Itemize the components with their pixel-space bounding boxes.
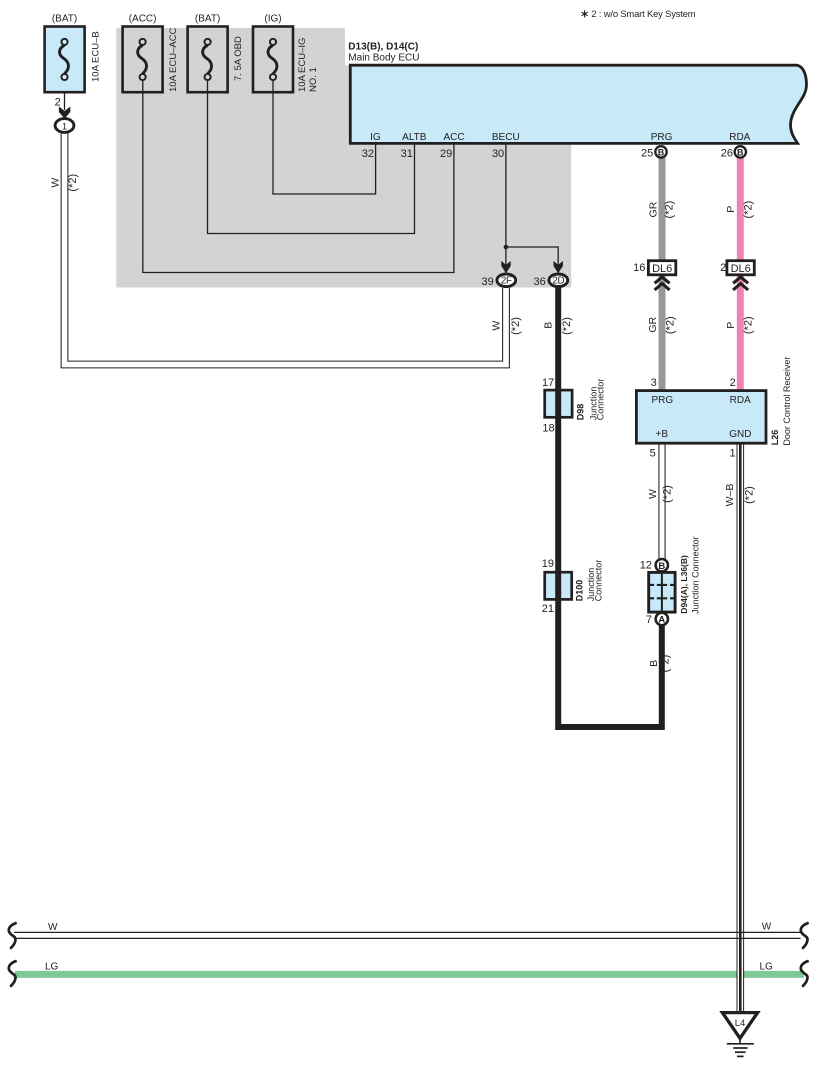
svg-text:(*2): (*2) — [743, 316, 755, 334]
svg-text:Junction Connector: Junction Connector — [691, 536, 701, 614]
node: BECU branch junction dot — [504, 245, 509, 250]
svg-text:W: W — [490, 321, 502, 331]
svg-text:1: 1 — [62, 121, 67, 132]
svg-text:PRG: PRG — [651, 132, 673, 143]
shield arrows below DL6 2 — [733, 277, 748, 283]
svg-text:19: 19 — [542, 558, 554, 570]
break symbol W right — [801, 923, 808, 948]
svg-text:7. 5A OBD: 7. 5A OBD — [233, 36, 244, 81]
break symbol LG right — [801, 961, 808, 986]
svg-text:B: B — [737, 147, 744, 157]
svg-text:31: 31 — [401, 148, 413, 160]
svg-text:2 : w/o Smart Key System: 2 : w/o Smart Key System — [591, 8, 695, 19]
connector oval 2D pin 36 — [549, 274, 568, 287]
break symbol W left — [9, 923, 16, 948]
svg-text:(*2): (*2) — [743, 201, 755, 219]
svg-text:LG: LG — [760, 961, 774, 972]
svg-text:L4: L4 — [735, 1018, 746, 1029]
svg-text:2: 2 — [720, 262, 726, 274]
note: *2 w/o Smart Key System — [582, 8, 696, 19]
svg-text:RDA: RDA — [729, 132, 750, 143]
shield arrows below DL6 16 — [655, 277, 670, 283]
svg-text:10A ECU–B: 10A ECU–B — [90, 31, 101, 82]
svg-text:GND: GND — [729, 429, 751, 440]
svg-text:32: 32 — [362, 148, 374, 160]
svg-text:W: W — [647, 489, 659, 499]
svg-text:D94(A), L36(B): D94(A), L36(B) — [679, 555, 689, 614]
wire IG: fuse ECU-IG to ECU pin 32 — [273, 81, 376, 195]
arrow into 2F — [501, 261, 510, 273]
svg-text:RDA: RDA — [730, 395, 751, 406]
svg-text:1: 1 — [729, 447, 735, 459]
svg-text:(*2): (*2) — [664, 201, 676, 219]
svg-text:(*2): (*2) — [67, 174, 79, 192]
svg-text:P: P — [725, 206, 737, 213]
svg-text:Connector: Connector — [595, 379, 605, 421]
svg-text:+B: +B — [656, 429, 669, 440]
wire: BECU branch to 2D — [506, 247, 558, 267]
svg-text:W–B: W–B — [724, 484, 736, 507]
svg-text:26: 26 — [721, 148, 733, 160]
svg-text:17: 17 — [542, 377, 554, 389]
wire W bottom bus — [14, 931, 801, 933]
svg-text:ACC: ACC — [443, 132, 464, 143]
svg-text:D98: D98 — [575, 404, 585, 421]
wire ACC: fuse ECU-ACC to ECU pin 29 — [143, 81, 454, 273]
svg-text:3: 3 — [651, 377, 657, 389]
svg-text:W: W — [50, 178, 62, 188]
svg-text:21: 21 — [542, 603, 554, 615]
svg-text:ALTB: ALTB — [402, 132, 427, 143]
svg-text:D100: D100 — [575, 580, 585, 602]
wire W (*2): receiver +B to junction B — [658, 443, 665, 558]
svg-text:DL6: DL6 — [652, 263, 672, 275]
svg-text:(*2): (*2) — [662, 485, 674, 503]
svg-text:(ACC): (ACC) — [129, 14, 157, 25]
ground L4 — [722, 1013, 757, 1039]
svg-text:36: 36 — [534, 276, 546, 288]
junction connector D94(A) L36(B) box — [649, 572, 675, 612]
svg-text:16: 16 — [633, 262, 645, 274]
svg-text:GR: GR — [647, 317, 659, 333]
svg-text:2: 2 — [55, 97, 61, 109]
svg-text:7: 7 — [646, 614, 652, 626]
component Main Body ECU D13(B), D14(C) — [350, 65, 806, 143]
wire ALTB: fuse OBD to ECU pin 31 — [208, 81, 415, 234]
svg-text:2: 2 — [730, 377, 736, 389]
svg-text:39: 39 — [482, 276, 494, 288]
svg-text:12: 12 — [640, 560, 652, 572]
svg-text:(*2): (*2) — [510, 317, 522, 335]
svg-text:2F: 2F — [501, 276, 512, 287]
svg-text:(*2): (*2) — [660, 655, 672, 673]
junction connector D94(A) L36(B) circled B pin 12 — [656, 559, 668, 571]
wire W (*2): connector 1 to 2F, double line white wire — [65, 133, 507, 365]
svg-text:PRG: PRG — [651, 395, 673, 406]
svg-text:LG: LG — [45, 961, 59, 972]
svg-text:2D: 2D — [552, 276, 564, 287]
connector DL6 pin 16 — [648, 261, 675, 275]
svg-text:Door Control Receiver: Door Control Receiver — [782, 357, 792, 446]
svg-text:B: B — [658, 147, 665, 157]
wire P (*2): RDA to door control receiver — [737, 157, 744, 391]
svg-text:BECU: BECU — [492, 132, 520, 143]
svg-text:10A ECU–ACC: 10A ECU–ACC — [168, 27, 179, 92]
svg-text:(BAT): (BAT) — [52, 14, 77, 25]
arrow into 2D — [554, 261, 563, 273]
svg-text:10A ECU–IG: 10A ECU–IG — [297, 38, 308, 92]
svg-text:DL6: DL6 — [731, 263, 751, 275]
fuse 10A ECU-ACC (ACC) — [123, 27, 163, 93]
wire BECU: ECU pin 30 down to 2F — [505, 143, 507, 266]
svg-text:25: 25 — [641, 148, 653, 160]
svg-text:Main Body ECU: Main Body ECU — [348, 52, 419, 63]
svg-text:IG: IG — [370, 132, 381, 143]
svg-text:29: 29 — [440, 148, 452, 160]
wire LG bottom bus — [15, 971, 804, 978]
connector oval 1 — [55, 119, 74, 133]
svg-text:W: W — [48, 922, 58, 933]
svg-text:B: B — [542, 322, 554, 329]
connector DL6 pin 2 — [727, 261, 754, 275]
harness shade region — [116, 28, 571, 288]
svg-text:A: A — [658, 615, 665, 626]
svg-text:18: 18 — [542, 423, 554, 435]
svg-text:(IG): (IG) — [264, 14, 281, 25]
svg-text:B: B — [648, 660, 660, 667]
component L26 Door Control Receiver — [636, 391, 766, 444]
svg-text:D13(B), D14(C): D13(B), D14(C) — [348, 42, 418, 53]
svg-text:GR: GR — [647, 201, 659, 217]
wire W-B (*2): receiver GND to ground — [736, 443, 744, 1013]
wire: fuse ECU-B lead down to arrow — [64, 81, 66, 111]
svg-text:(*2): (*2) — [561, 317, 573, 335]
svg-text:5: 5 — [650, 447, 656, 459]
svg-text:P: P — [725, 322, 737, 329]
svg-text:30: 30 — [492, 148, 504, 160]
circled B pin 26 — [735, 146, 746, 157]
fuse 7.5A OBD (BAT) — [188, 27, 228, 93]
svg-text:B: B — [658, 561, 665, 572]
arrow into connector 1 — [59, 107, 70, 119]
svg-text:NO. 1: NO. 1 — [308, 67, 319, 92]
fuse 10A ECU-B (BAT) — [45, 27, 85, 93]
circled B pin 25 — [655, 146, 666, 157]
wire GR (*2): PRG to door control receiver — [659, 157, 666, 391]
svg-text:Connector: Connector — [593, 560, 603, 602]
svg-text:(*2): (*2) — [743, 486, 755, 504]
svg-text:L26: L26 — [770, 430, 780, 446]
break symbol LG left — [9, 961, 16, 986]
svg-text:(*2): (*2) — [664, 316, 676, 334]
connector oval 2F pin 39 — [497, 274, 516, 287]
svg-text:(BAT): (BAT) — [195, 14, 220, 25]
wire B (*2): 2D through D98 D100 to junction A — [558, 288, 662, 728]
junction connector D100 — [545, 572, 572, 599]
fuse 10A ECU-IG NO.1 (IG) — [253, 27, 293, 93]
junction connector D98 — [545, 390, 572, 417]
junction connector D94(A) L36(B) circled A pin 7 — [656, 613, 668, 625]
svg-text:W: W — [762, 921, 772, 932]
